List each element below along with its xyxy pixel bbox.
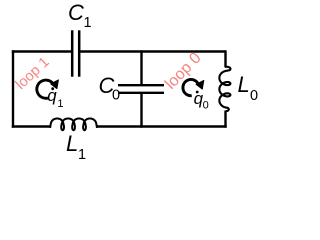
label L1: [66, 131, 86, 163]
loop 1 circulation arrow: [37, 80, 59, 98]
wire right-top segment: [224, 50, 226, 67]
svg-text:L: L: [66, 131, 78, 156]
loop 0 circulation arrow: [183, 80, 204, 96]
wire left edge: [12, 50, 14, 127]
wire middle-top segment: [140, 50, 142, 84]
svg-text:1: 1: [78, 147, 86, 163]
wire top-left segment: [12, 50, 71, 52]
wire top-right segment: [80, 50, 225, 52]
inductor L1: [50, 119, 97, 131]
wire middle-bottom segment: [140, 94, 142, 128]
svg-text:0: 0: [203, 99, 209, 111]
capacitor C1: [72, 30, 79, 76]
label L0: [238, 72, 259, 104]
svg-text:0: 0: [250, 88, 258, 104]
svg-text:0: 0: [112, 87, 120, 103]
wire bottom-left segment: [12, 125, 51, 127]
label C0: [99, 73, 121, 104]
inductor L0: [219, 67, 230, 111]
svg-text:1: 1: [57, 98, 63, 110]
label C1: [68, 0, 92, 31]
label q0-dot: [194, 89, 209, 112]
wire bottom-right segment: [97, 125, 227, 127]
wire right-bottom segment: [224, 111, 226, 128]
svg-text:C: C: [68, 0, 84, 25]
capacitor C0: [118, 85, 164, 93]
svg-text:1: 1: [84, 15, 92, 31]
label q1-dot: [47, 86, 63, 110]
svg-text:L: L: [238, 72, 250, 97]
